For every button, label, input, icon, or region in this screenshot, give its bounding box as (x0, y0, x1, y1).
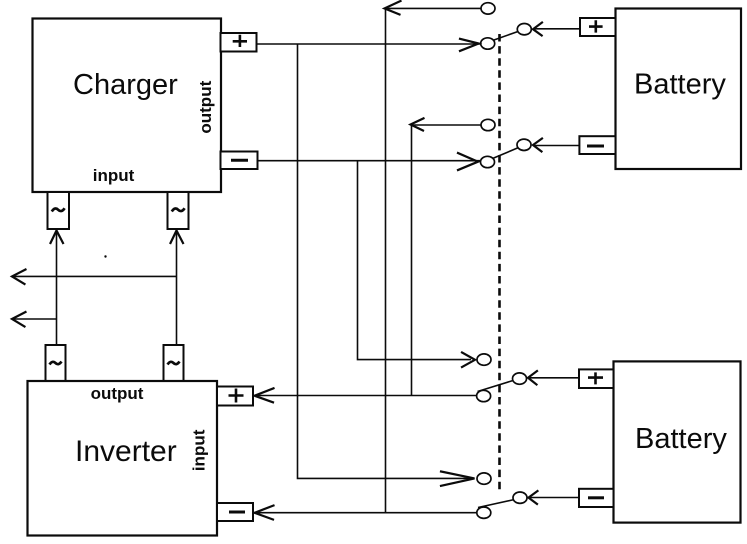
arrow up into charger ac left (51, 231, 64, 244)
svg-text:Charger: Charger (73, 69, 178, 101)
switch blade battery2 - (478, 500, 515, 508)
wire: link from contact C4 down x=411.5 (412, 125, 482, 396)
arrow left on ac branch upper (12, 270, 26, 285)
arrow left at top link corner (385, 1, 401, 15)
wire: inverter - input line (y=512.7) (255, 512, 477, 514)
svg-text:Battery: Battery (635, 423, 727, 455)
wire: branch down from charger - at x=357.5 (358, 161, 472, 360)
charger + terminal (221, 33, 257, 52)
contact circle C5 (from charger -) (477, 354, 491, 365)
inverter ~ terminal right (164, 345, 184, 381)
switch common circle C3 (battery1 +) (517, 24, 531, 35)
battery2 box (614, 361, 741, 522)
arrow left at C4 link corner (411, 118, 424, 130)
contact circle C2 (top link) (481, 3, 495, 14)
stray dot (104, 255, 106, 257)
battery1 box (616, 9, 742, 170)
charger - terminal (221, 152, 258, 170)
battery2 - terminal (579, 489, 614, 507)
arrowheads (12, 1, 542, 520)
svg-text:output: output (91, 384, 144, 403)
inverter ~ terminal left (46, 345, 66, 381)
switch common circle C3b (battery1 -) (517, 139, 531, 150)
battery1 + terminal (580, 18, 616, 36)
charger box (33, 19, 222, 193)
arrow left into C9 from battery2 - (529, 491, 538, 504)
battery1 - terminal (579, 136, 615, 154)
svg-text:input: input (93, 166, 135, 185)
switch blade battery1 - (493, 148, 519, 159)
svg-text:Battery: Battery (634, 69, 726, 101)
contact circle C1 (charger +) (481, 38, 495, 49)
wire: charger ac left vertical (56, 231, 58, 346)
svg-text:input: input (190, 429, 209, 471)
contact circle C10 (inverter -) (477, 507, 491, 518)
contact circle C8 (from charger +) (477, 473, 491, 484)
wire: inverter + input line (y=395.5) (255, 395, 477, 397)
charger ~ terminal left (48, 192, 70, 229)
inverter box (28, 381, 218, 536)
wire: ac branch lower (y=319) (12, 318, 57, 320)
inverter + terminal (217, 387, 253, 406)
switch contact circles (477, 3, 532, 519)
switch common circle C9 (battery2 -) (513, 492, 527, 503)
switch blade battery2 + (478, 381, 514, 392)
wire: battery1 - to switch (533, 145, 579, 147)
svg-text:Inverter: Inverter (75, 435, 177, 468)
svg-text:output: output (196, 80, 215, 133)
wire: battery1 + to switch (533, 28, 580, 30)
dashed separation line (498, 34, 501, 491)
wire: charger + output to switch contact (y=44) (257, 43, 480, 45)
arrow left into inverter - (255, 506, 274, 520)
arrow right into C5 (462, 353, 475, 368)
arrow right into C1b (458, 153, 478, 170)
wire: series link from top contact C2 down x=385.5 to bottom row (386, 8, 482, 512)
charger ~ terminal right (168, 192, 189, 229)
wire: branch down from charger + at x=297.5 (298, 44, 472, 478)
contact circle C7 (inverter +) (477, 390, 491, 401)
wire: charger - output to switch contact (y=160.7) (258, 160, 480, 162)
contact circle C1b (charger -) (481, 156, 495, 167)
arrow left on ac branch lower (12, 312, 26, 327)
arrow left into C6 from battery2 + (528, 371, 537, 385)
wire: charger ac right vertical (176, 231, 178, 346)
arrow right into C1 (460, 39, 479, 51)
arrow up into charger ac right (171, 231, 184, 244)
battery2 + terminal (579, 369, 614, 388)
arrow left into C3b from battery1 - (533, 139, 542, 152)
big arrow right into C8 (441, 472, 475, 486)
inverter - terminal (217, 503, 253, 521)
switch blade battery1 + (493, 32, 519, 41)
wire: battery2 + to switch (528, 377, 578, 379)
switch common circle C6 (battery2 +) (513, 373, 527, 384)
contact circle C4 (link) (481, 119, 495, 130)
arrow left into inverter + (255, 388, 274, 402)
wire: ac branch upper (y=276.4) (12, 275, 177, 277)
arrow left into C3 from battery1 + (533, 23, 542, 36)
wire: battery2 - to switch (529, 497, 580, 499)
